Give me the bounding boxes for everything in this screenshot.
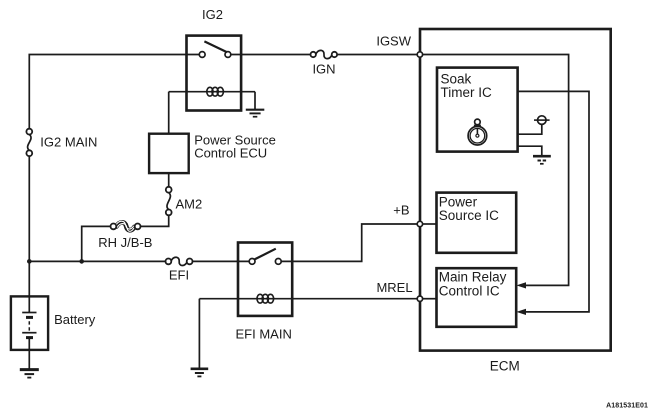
ground (IG2 relay coil) <box>246 110 264 117</box>
wire: top bus from left vertical to IG2 relay <box>29 55 199 132</box>
IG2 relay coil <box>207 87 224 96</box>
wire: MREL node to Main Relay Control IC <box>423 298 437 300</box>
wire: Soak Timer IC to internal ground <box>518 146 542 156</box>
wire: Soak Timer IC to sensor symbol <box>518 124 542 134</box>
arrowhead into Main Relay Control IC (upper) <box>516 282 526 288</box>
svg-text:Control ECU: Control ECU <box>194 146 267 161</box>
box Power Source IC <box>437 193 517 253</box>
IG2 switch arm <box>204 41 227 52</box>
wire: IG2 coil line <box>169 91 255 93</box>
ground (EFI MAIN coil) <box>191 369 209 377</box>
arrowhead into Main Relay Control IC (lower) <box>516 309 526 315</box>
relay EFI MAIN box <box>238 243 292 316</box>
stopwatch icon <box>468 119 487 145</box>
wire: EFI MAIN coil left leg to ground <box>198 299 200 369</box>
svg-text:IGSW: IGSW <box>376 34 411 49</box>
wire: +B node to Power Source IC <box>423 223 437 225</box>
junction dot at RH J/B-B leg <box>79 259 84 264</box>
svg-text:IG2 MAIN: IG2 MAIN <box>40 134 97 149</box>
svg-text:Battery: Battery <box>54 312 96 327</box>
node MREL on ECM edge <box>417 296 422 301</box>
fuse IGN <box>311 50 338 58</box>
wire: Soak Timer IC output to Main Relay Control IC (lower arrow) <box>518 91 589 312</box>
wire: battery to ground <box>28 350 30 370</box>
svg-text:RH J/B-B: RH J/B-B <box>98 235 152 250</box>
svg-text:Timer IC: Timer IC <box>441 85 492 100</box>
EFI MAIN switch arm <box>255 249 276 260</box>
box Main Relay Control IC <box>437 268 517 327</box>
fuse AM2 <box>166 187 172 216</box>
label Main Relay Control IC <box>439 270 507 299</box>
sensor symbol (circle with bar) <box>534 116 550 125</box>
EFI MAIN switch contacts <box>249 259 281 265</box>
ECM outer box <box>420 29 611 351</box>
svg-text:MREL: MREL <box>376 280 412 295</box>
wire: left vertical below IG2 MAIN fuse down to battery <box>28 153 30 296</box>
svg-text:IGN: IGN <box>312 62 335 77</box>
svg-text:Control IC: Control IC <box>439 283 500 298</box>
label Power Source Control ECU <box>194 133 276 161</box>
wire: coil left leg down to Power Source Control ECU <box>168 92 170 134</box>
battery cells <box>22 296 36 350</box>
label Soak Timer IC <box>441 72 492 101</box>
node +B on ECM edge <box>417 221 422 226</box>
junction dot at battery vertical <box>27 259 32 264</box>
ground (Soak Timer IC) <box>533 156 551 164</box>
wire: IG2 switch to IGN fuse <box>231 54 311 56</box>
fuse EFI <box>166 257 193 265</box>
wire: IGN fuse to IGSW node <box>337 54 417 56</box>
wire: bottom bus battery to EFI fuse <box>29 260 166 262</box>
wire: coil right leg down to ground <box>254 92 256 110</box>
wire: IGSW internal run to Main Relay Control IC (upper arrow) <box>423 55 569 286</box>
EFI MAIN relay coil <box>257 294 274 303</box>
svg-text:AM2: AM2 <box>176 197 203 212</box>
fusible link RH J/B-B <box>111 221 141 231</box>
svg-text:Main Relay: Main Relay <box>439 270 507 285</box>
IG2 switch contacts <box>199 52 231 58</box>
fuse IG2 MAIN <box>26 129 32 156</box>
svg-text:ECM: ECM <box>490 358 520 373</box>
wire: EFI MAIN switch to +B node <box>281 224 417 261</box>
svg-text:Source IC: Source IC <box>439 208 499 223</box>
wire: AM2 to RH J/B-B link <box>140 215 169 226</box>
ground (battery) <box>20 370 39 378</box>
svg-text:A181531E01: A181531E01 <box>606 403 648 410</box>
box Power Source Control ECU <box>149 134 189 173</box>
wire: EFI fuse to EFI MAIN relay <box>192 260 249 262</box>
wire: RH J/B-B down leg to bottom bus <box>82 226 111 261</box>
battery box <box>11 296 48 350</box>
svg-text:EFI: EFI <box>169 268 189 283</box>
svg-text:EFI MAIN: EFI MAIN <box>236 326 292 341</box>
svg-text:Power: Power <box>439 194 478 209</box>
svg-text:+B: +B <box>393 203 409 218</box>
svg-text:IG2: IG2 <box>202 7 223 22</box>
wire: EFI MAIN coil line to MREL node <box>199 298 417 300</box>
wire: Power Source Control ECU to AM2 fuse <box>168 173 170 187</box>
relay IG2 box <box>187 36 242 111</box>
label Power Source IC <box>439 194 499 223</box>
node IGSW on ECM edge <box>417 52 422 57</box>
box Soak Timer IC <box>437 68 518 152</box>
